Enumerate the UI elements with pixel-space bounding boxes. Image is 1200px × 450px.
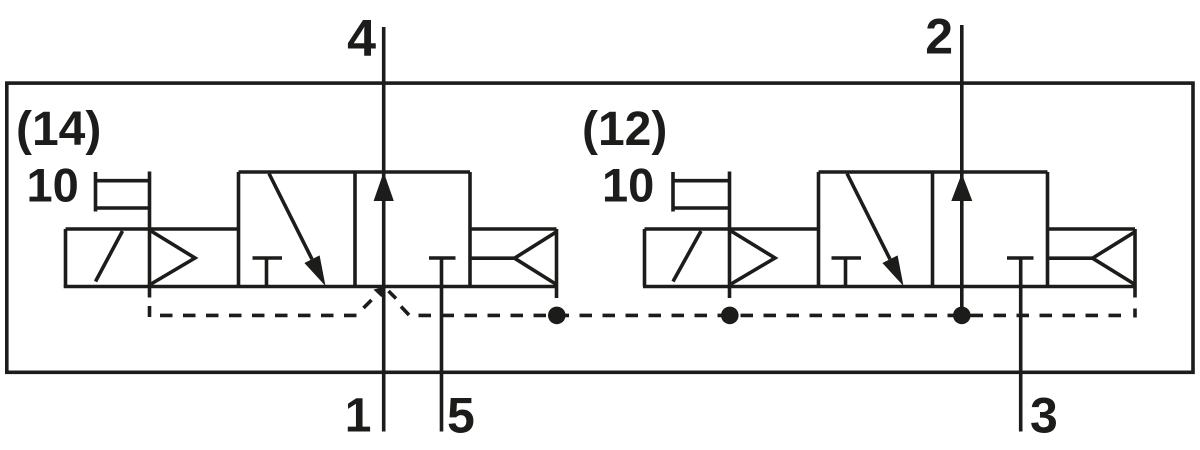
svg-text:3: 3: [1030, 388, 1058, 444]
svg-text:(14): (14): [16, 103, 101, 156]
svg-text:10: 10: [27, 159, 79, 212]
svg-text:5: 5: [447, 388, 475, 444]
svg-text:1: 1: [345, 389, 372, 442]
svg-text:(12): (12): [582, 103, 667, 156]
svg-text:2: 2: [925, 9, 953, 65]
svg-text:4: 4: [347, 10, 376, 68]
svg-text:10: 10: [602, 159, 654, 212]
